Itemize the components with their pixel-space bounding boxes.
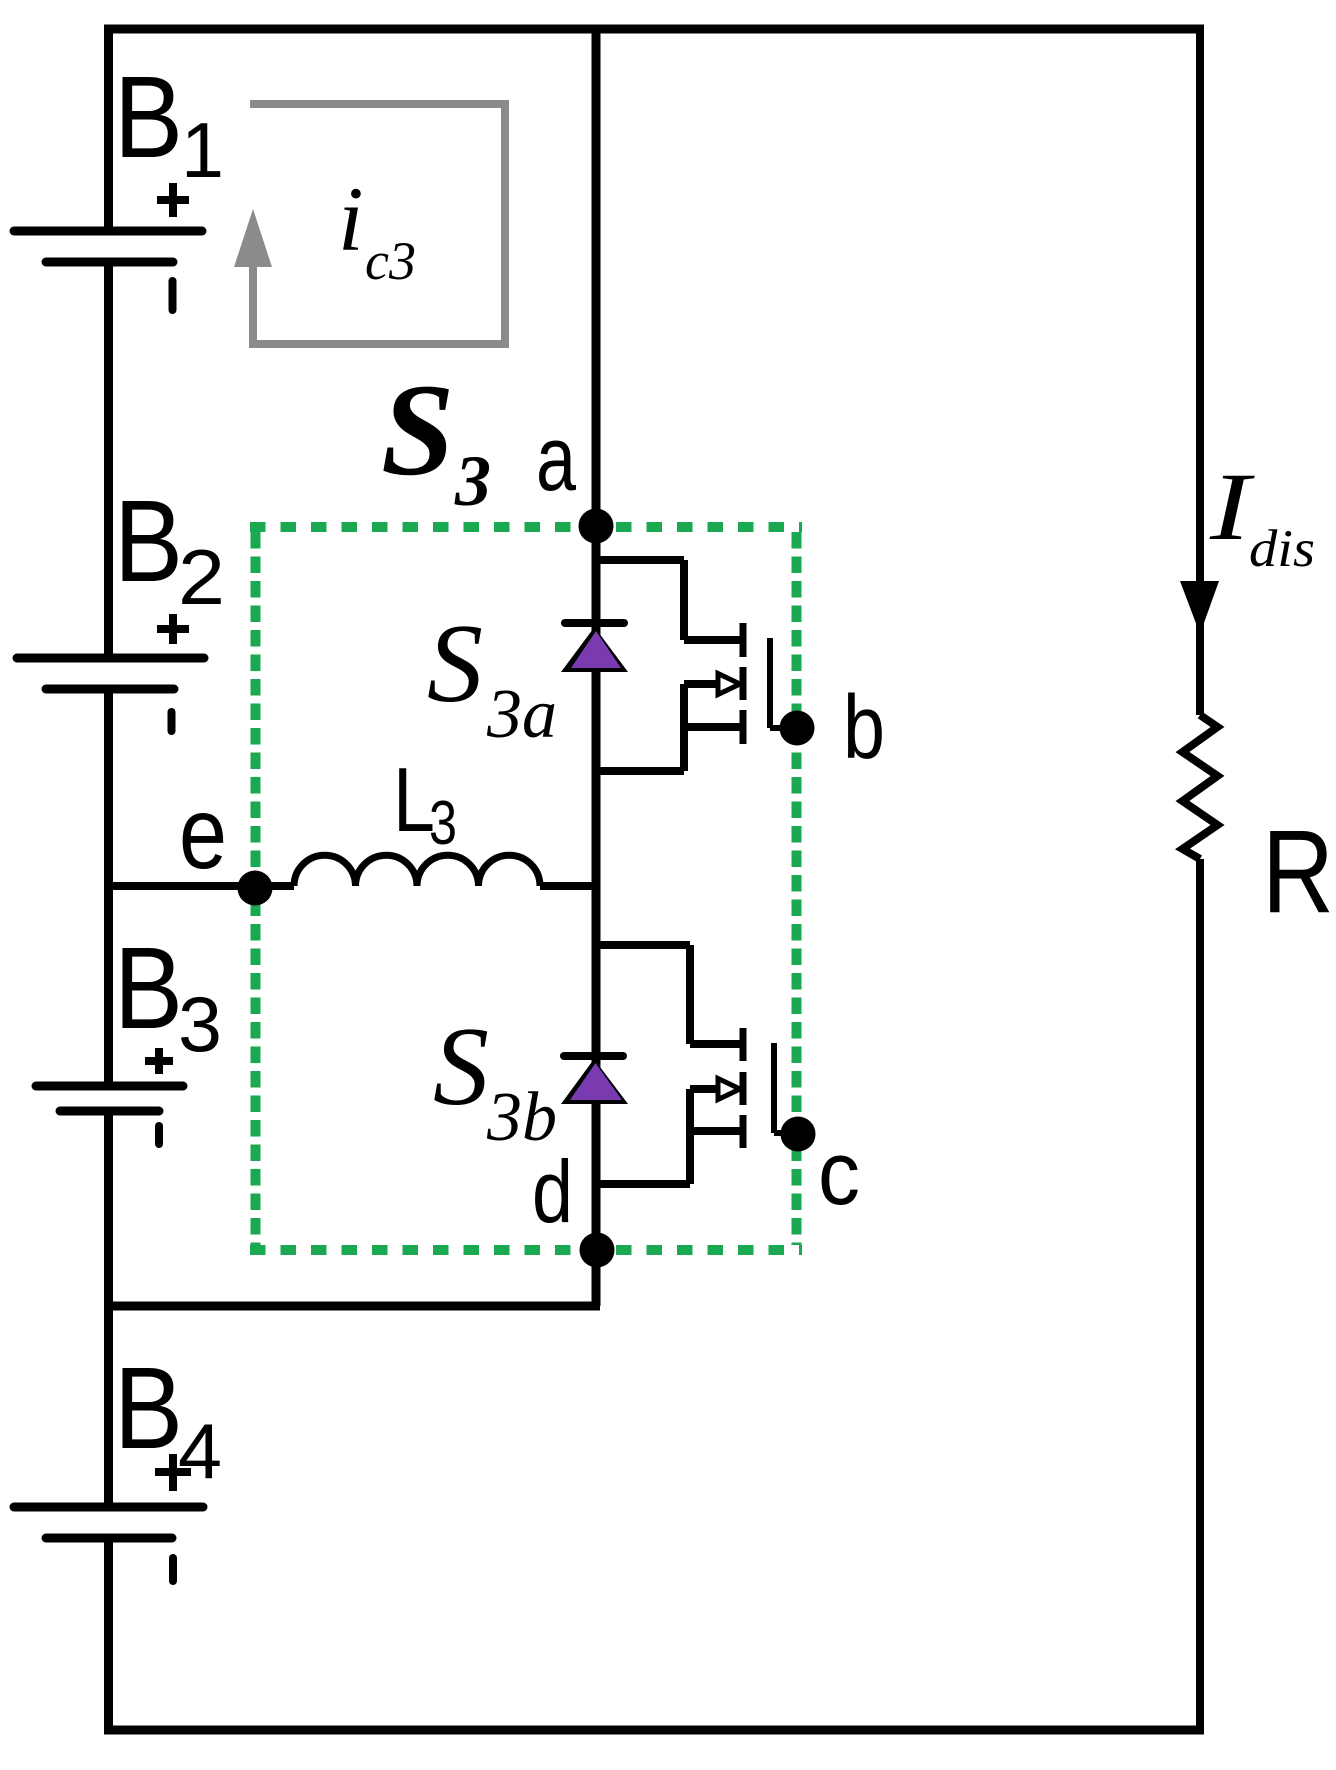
gray current loop i_c3 [250, 100, 509, 348]
svg-text:B: B [114, 476, 183, 606]
gray loop arrowhead [234, 209, 272, 267]
svg-text:B: B [114, 52, 183, 182]
svg-text:S: S [427, 602, 483, 726]
wire bottom rail [104, 1726, 1204, 1735]
svg-text:d: d [532, 1142, 573, 1241]
wire node e horizontal [104, 882, 596, 890]
svg-text:3: 3 [178, 980, 222, 1068]
resistor R [1183, 715, 1218, 859]
node b [780, 711, 815, 746]
svg-text:a: a [536, 408, 577, 510]
svg-text:2: 2 [178, 533, 225, 621]
label S3a [427, 602, 557, 753]
wire left rail [104, 25, 113, 1734]
svg-text:1: 1 [181, 106, 224, 194]
battery B2 [17, 476, 225, 731]
node e [238, 871, 273, 906]
label I_dis [1209, 453, 1315, 578]
label S3b [433, 1005, 557, 1156]
wire drain branch S3b [596, 945, 740, 1044]
wire source branch S3b [596, 1089, 740, 1184]
MOSFET S3b [596, 945, 797, 1184]
inductor L3 [294, 855, 540, 886]
gate S3a [770, 638, 797, 728]
battery B3 [36, 923, 222, 1144]
wire right rail [1196, 25, 1204, 1734]
MOSFET S3a [596, 560, 797, 771]
node c [781, 1117, 816, 1152]
svg-text:S: S [381, 356, 454, 503]
svg-text:3: 3 [454, 441, 491, 521]
node d [580, 1233, 615, 1268]
battery B1 [14, 52, 224, 310]
body arrow S3b [690, 1085, 718, 1093]
channel bars S3a [740, 623, 747, 744]
svg-text:S: S [433, 1005, 489, 1129]
svg-text:b: b [843, 678, 885, 778]
svg-text:dis: dis [1249, 520, 1315, 578]
gate S3b [774, 1043, 797, 1133]
svg-text:c: c [818, 1124, 860, 1224]
wire node d to left rail [104, 1302, 600, 1311]
svg-text:e: e [179, 776, 227, 890]
current arrow I_dis [1180, 581, 1219, 634]
wire drain branch S3a [596, 560, 740, 640]
svg-text:i: i [338, 168, 364, 270]
wire top rail [104, 25, 1204, 34]
svg-text:3a: 3a [486, 676, 557, 753]
svg-text:3: 3 [429, 789, 457, 858]
node a [579, 509, 614, 544]
channel bars S3b [740, 1028, 747, 1148]
svg-text:4: 4 [178, 1407, 222, 1495]
svg-text:B: B [114, 923, 183, 1053]
switch cell S3 dashed boundary [250, 527, 802, 1250]
diode S3b [561, 1056, 628, 1104]
svg-text:B: B [114, 1343, 183, 1473]
wire source branch S3a [596, 684, 740, 771]
svg-text:R: R [1262, 806, 1334, 938]
body arrow S3a [684, 680, 718, 688]
svg-text:c3: c3 [365, 231, 416, 291]
wire middle vertical [592, 29, 601, 1306]
label i_c3 [338, 168, 416, 291]
diode S3a [561, 623, 628, 672]
label S3 [381, 356, 491, 521]
battery B4 [14, 1343, 222, 1581]
